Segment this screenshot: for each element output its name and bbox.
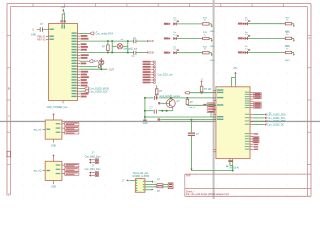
connector J3 Con_Black_Bus2 — [85, 165, 102, 176]
global label Con_OLED_MOSI from U1 — [80, 87, 109, 91]
pin labels right of U2 upper cluster B — [254, 102, 261, 108]
regulator U4 — [33, 154, 78, 188]
svg-text:aux_in1: aux_in1 — [33, 129, 42, 131]
svg-text:AVR: AVR — [186, 175, 191, 178]
labels XTAL pins left of U1 — [37, 36, 46, 42]
global label RST — [185, 92, 190, 94]
svg-text:GND: GND — [143, 123, 148, 125]
pin labels right of U2 lower boxed cluster — [253, 133, 259, 150]
resistor R2 below J1 — [155, 85, 162, 98]
wire loop right side — [127, 41, 129, 52]
svg-text:GND: GND — [31, 33, 37, 36]
svg-text:PB7-X2: PB7-X2 — [37, 39, 46, 42]
svg-text:GND: GND — [149, 52, 155, 55]
svg-text:GND: GND — [210, 46, 215, 48]
pin text GND under U2 — [228, 160, 233, 162]
frame zone tick right — [308, 36, 310, 40]
IC U2 second MCU — [213, 85, 253, 162]
svg-text:Low_adj2_out: Low_adj2_out — [123, 48, 138, 51]
wire mid rail to MOSFET — [145, 116, 216, 118]
mosfet Q2 cluster — [203, 103, 216, 117]
capacitor C2 upper — [133, 38, 147, 44]
wire +5V to U2 VCC pins — [231, 74, 235, 84]
svg-text:GND: GND — [51, 145, 56, 147]
wire R6 to USB connector — [163, 186, 168, 188]
power +5V symbol at R3 — [200, 78, 203, 83]
connector J4 USB pads — [168, 183, 173, 189]
wire analog rail upper — [144, 97, 216, 99]
svg-text:Con_OLED_SCK: Con_OLED_SCK — [89, 90, 108, 93]
svg-text:GND: GND — [149, 40, 155, 43]
svg-text:GND: GND — [210, 31, 215, 33]
grey horizontal page-split bar — [0, 121, 320, 122]
svg-text:rxd_in: rxd_in — [189, 106, 196, 109]
regulator U3 — [33, 113, 78, 147]
capacitor C6 below rail — [188, 120, 200, 171]
wire +5V to U1 VCC pins — [62, 12, 64, 21]
pin labels right of U2 upper cluster A — [254, 93, 261, 99]
wire net to D1 bottom — [80, 68, 108, 70]
wire U5 out3 to R6 — [145, 186, 157, 188]
label U5 name lines — [132, 172, 149, 178]
svg-text:GND: GND — [210, 60, 215, 62]
capacitor C3 lower — [132, 51, 147, 59]
IC U5 level shifter — [135, 179, 145, 193]
label bus small — [269, 112, 272, 114]
wire U1 to C2 net upper — [80, 40, 134, 42]
svg-text:Con_OLED_DC: Con_OLED_DC — [267, 124, 284, 127]
crystal Y1 crossed component in loop — [112, 44, 128, 49]
resistor R4 series RXD — [186, 98, 193, 105]
wire U5 out1 — [145, 180, 154, 183]
svg-text:Con_Blk1_Bus: Con_Blk1_Bus — [85, 168, 102, 171]
grey vertical page-split bar — [213, 0, 215, 199]
svg-text:Con_Blk0_Bus: Con_Blk0_Bus — [85, 155, 102, 158]
svg-text:GND: GND — [51, 187, 56, 189]
global label Con_OLED_SCK from U1 — [80, 90, 108, 94]
svg-text:+5V: +5V — [233, 67, 238, 70]
svg-text:R? 10k: R? 10k — [204, 89, 212, 91]
LED indicator row R3 with resistor — [238, 46, 295, 62]
wire U1 to C3 net lower — [80, 52, 134, 54]
frame zone letter C left — [8, 115, 10, 118]
svg-text:D: D — [8, 192, 10, 196]
transistor Q1 — [166, 98, 180, 111]
wire loop left side — [111, 41, 113, 52]
net label Con_ECUR_temps on analog rail — [160, 95, 181, 98]
label GND at C1 — [31, 29, 37, 37]
label POWER bus under U1 — [47, 106, 69, 109]
LED indicator row L2 with resistor — [164, 32, 215, 48]
power flag GND after C2 — [147, 40, 155, 43]
svg-text:GND(3-4): GND(3-4) — [229, 167, 239, 169]
power flag GND after C3 — [147, 51, 155, 54]
decorative grid (not labeled further) — [3, 2, 319, 196]
frame zone letter bottom left — [8, 192, 10, 196]
page frame border — [7, 4, 311, 197]
pin 1 input left of U5 — [122, 180, 136, 183]
svg-text:B: B — [8, 86, 10, 90]
connector J2 Con_Black_Bus — [85, 152, 102, 163]
svg-text:Con_studs_RX4: Con_studs_RX4 — [96, 33, 114, 36]
ground GND analog stem — [143, 120, 148, 126]
svg-text:GND_POWER_bus: GND_POWER_bus — [47, 106, 69, 109]
wire analog rail lower — [145, 110, 173, 112]
wire R5 to USB connector — [163, 184, 168, 186]
capacitor C5 inline lower — [150, 107, 157, 113]
svg-text:aux_in2: aux_in2 — [33, 171, 42, 173]
wire vertical analog stem — [144, 98, 146, 120]
power +5V symbol above U1 — [61, 6, 66, 12]
label OUT red near D1 — [109, 68, 115, 71]
label Con_ECU_Serial — [157, 74, 173, 77]
wire U5 out4 — [145, 189, 153, 191]
svg-text:COMM_LLSHM: COMM_LLSHM — [132, 175, 149, 178]
resistor R1 vertical between nets — [102, 41, 109, 52]
frame zone letter B left — [8, 86, 10, 90]
svg-text:+5V: +5V — [61, 6, 66, 9]
wire ground run to U2 GND — [190, 169, 234, 172]
svg-text:C: C — [8, 115, 10, 118]
wire U2 GND pins down — [230, 161, 233, 170]
ground symbol below U2 — [226, 166, 239, 170]
diode D1 vertical — [99, 58, 104, 69]
frame zone box mark left — [7, 151, 11, 157]
junction small cross node — [98, 65, 100, 68]
connector J1 ECU serial — [143, 61, 156, 84]
capacitor C4 inline upper — [155, 94, 159, 100]
wire lower rail to U2 — [158, 118, 216, 120]
resistor R6 series — [157, 186, 163, 193]
labels D+ D- left of resistors — [155, 182, 157, 188]
wire R4 to U2 RXD — [187, 105, 216, 109]
LED indicator row R2 with resistor — [238, 32, 295, 48]
wire Q1 base feed — [158, 102, 166, 104]
LED indicator row L3 with resistor — [164, 46, 215, 62]
pin net labels right of U1 — [81, 35, 89, 97]
global label Con_serial_RX4 from U1 pin 2 — [80, 31, 114, 35]
LED indicator row R1 with resistor — [238, 17, 295, 33]
label +5V small above loop — [121, 39, 124, 41]
LED indicator row L1 with resistor — [164, 18, 215, 34]
global label BAT_Mon from U1 — [80, 60, 105, 63]
resistor R3 pullup — [200, 83, 212, 92]
svg-text:OUT: OUT — [109, 68, 115, 71]
wire U1 aux pin — [80, 65, 98, 67]
resistor R5 series — [157, 180, 163, 186]
svg-text:File: the-cold-finder-pfblmk-a: File: the-cold-finder-pfblmk-adapter.sch — [186, 193, 230, 196]
svg-text:G: G — [32, 29, 34, 32]
wire U5 out2 to R5 — [145, 184, 157, 186]
label Low_Pass net — [123, 48, 138, 51]
power +5V symbol above U2 — [233, 67, 238, 74]
svg-text:Con_ECU_ser: Con_ECU_ser — [157, 74, 173, 77]
capacitor C1 left of U1 — [37, 23, 46, 32]
wires U2 to OLED labels — [254, 113, 287, 126]
title block — [185, 174, 311, 196]
wire RST to U2 — [190, 92, 217, 94]
svg-text:GND: GND — [285, 60, 290, 62]
IC U1 ATmega main MCU — [46, 20, 80, 103]
